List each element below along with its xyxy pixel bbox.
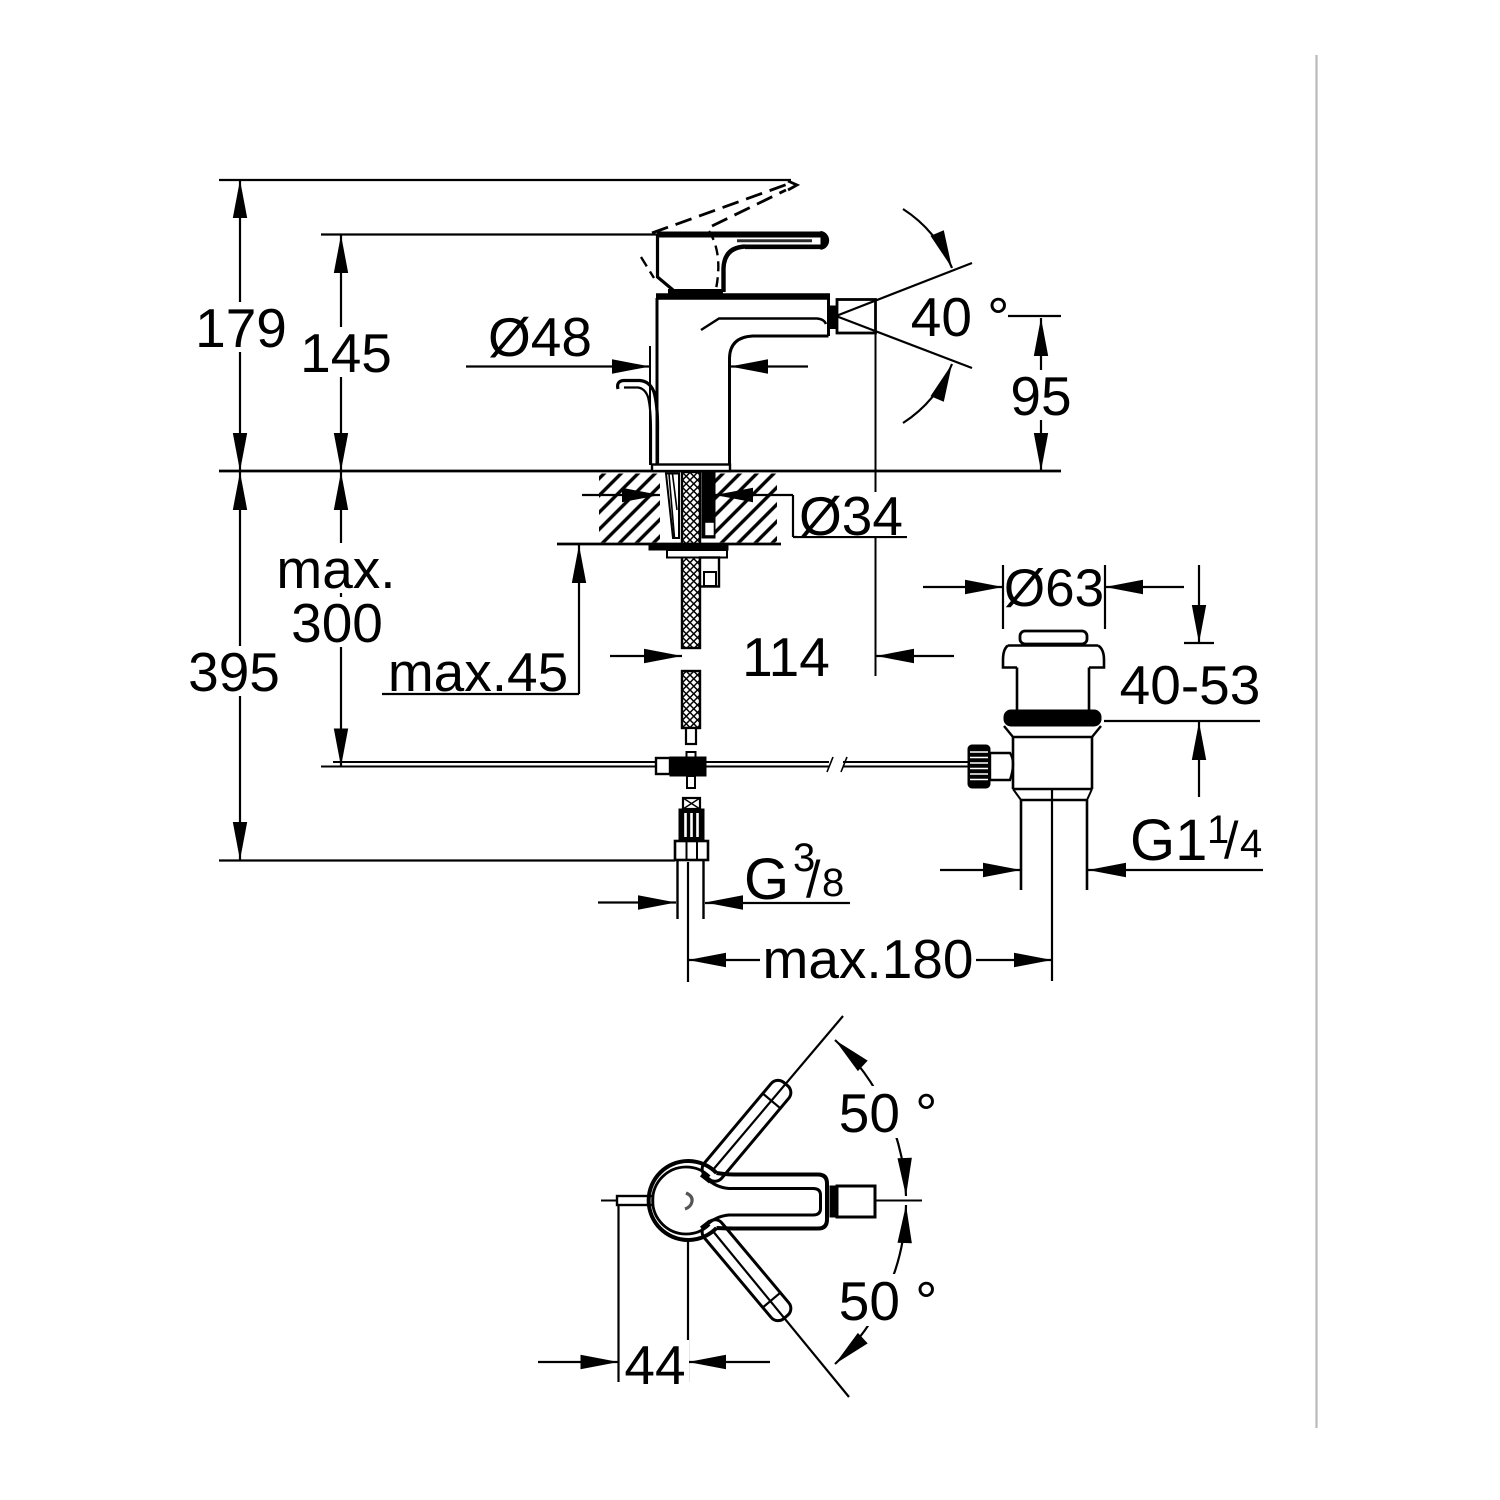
svg-text:G1: G1 xyxy=(1130,808,1207,873)
svg-text:44: 44 xyxy=(624,1334,685,1396)
svg-text:300: 300 xyxy=(291,592,383,654)
svg-text:395: 395 xyxy=(188,641,280,703)
svg-text:G: G xyxy=(744,847,789,912)
svg-text:8: 8 xyxy=(822,861,844,905)
svg-text:/: / xyxy=(1224,812,1239,870)
svg-text:50 °: 50 ° xyxy=(839,1082,937,1144)
svg-text:Ø48: Ø48 xyxy=(488,306,592,368)
svg-text:145: 145 xyxy=(300,322,392,384)
svg-text:179: 179 xyxy=(195,297,287,359)
svg-text:40 °: 40 ° xyxy=(911,286,1009,348)
svg-text:/: / xyxy=(806,851,821,909)
svg-text:40-53: 40-53 xyxy=(1120,654,1261,716)
svg-text:Ø34: Ø34 xyxy=(799,485,903,547)
svg-text:Ø63: Ø63 xyxy=(1004,559,1104,618)
svg-text:max.180: max.180 xyxy=(763,928,974,990)
svg-text:114: 114 xyxy=(742,626,830,688)
svg-text:4: 4 xyxy=(1240,822,1262,866)
svg-text:max.: max. xyxy=(276,538,395,600)
svg-text:95: 95 xyxy=(1010,365,1071,427)
svg-text:50 °: 50 ° xyxy=(839,1270,937,1332)
